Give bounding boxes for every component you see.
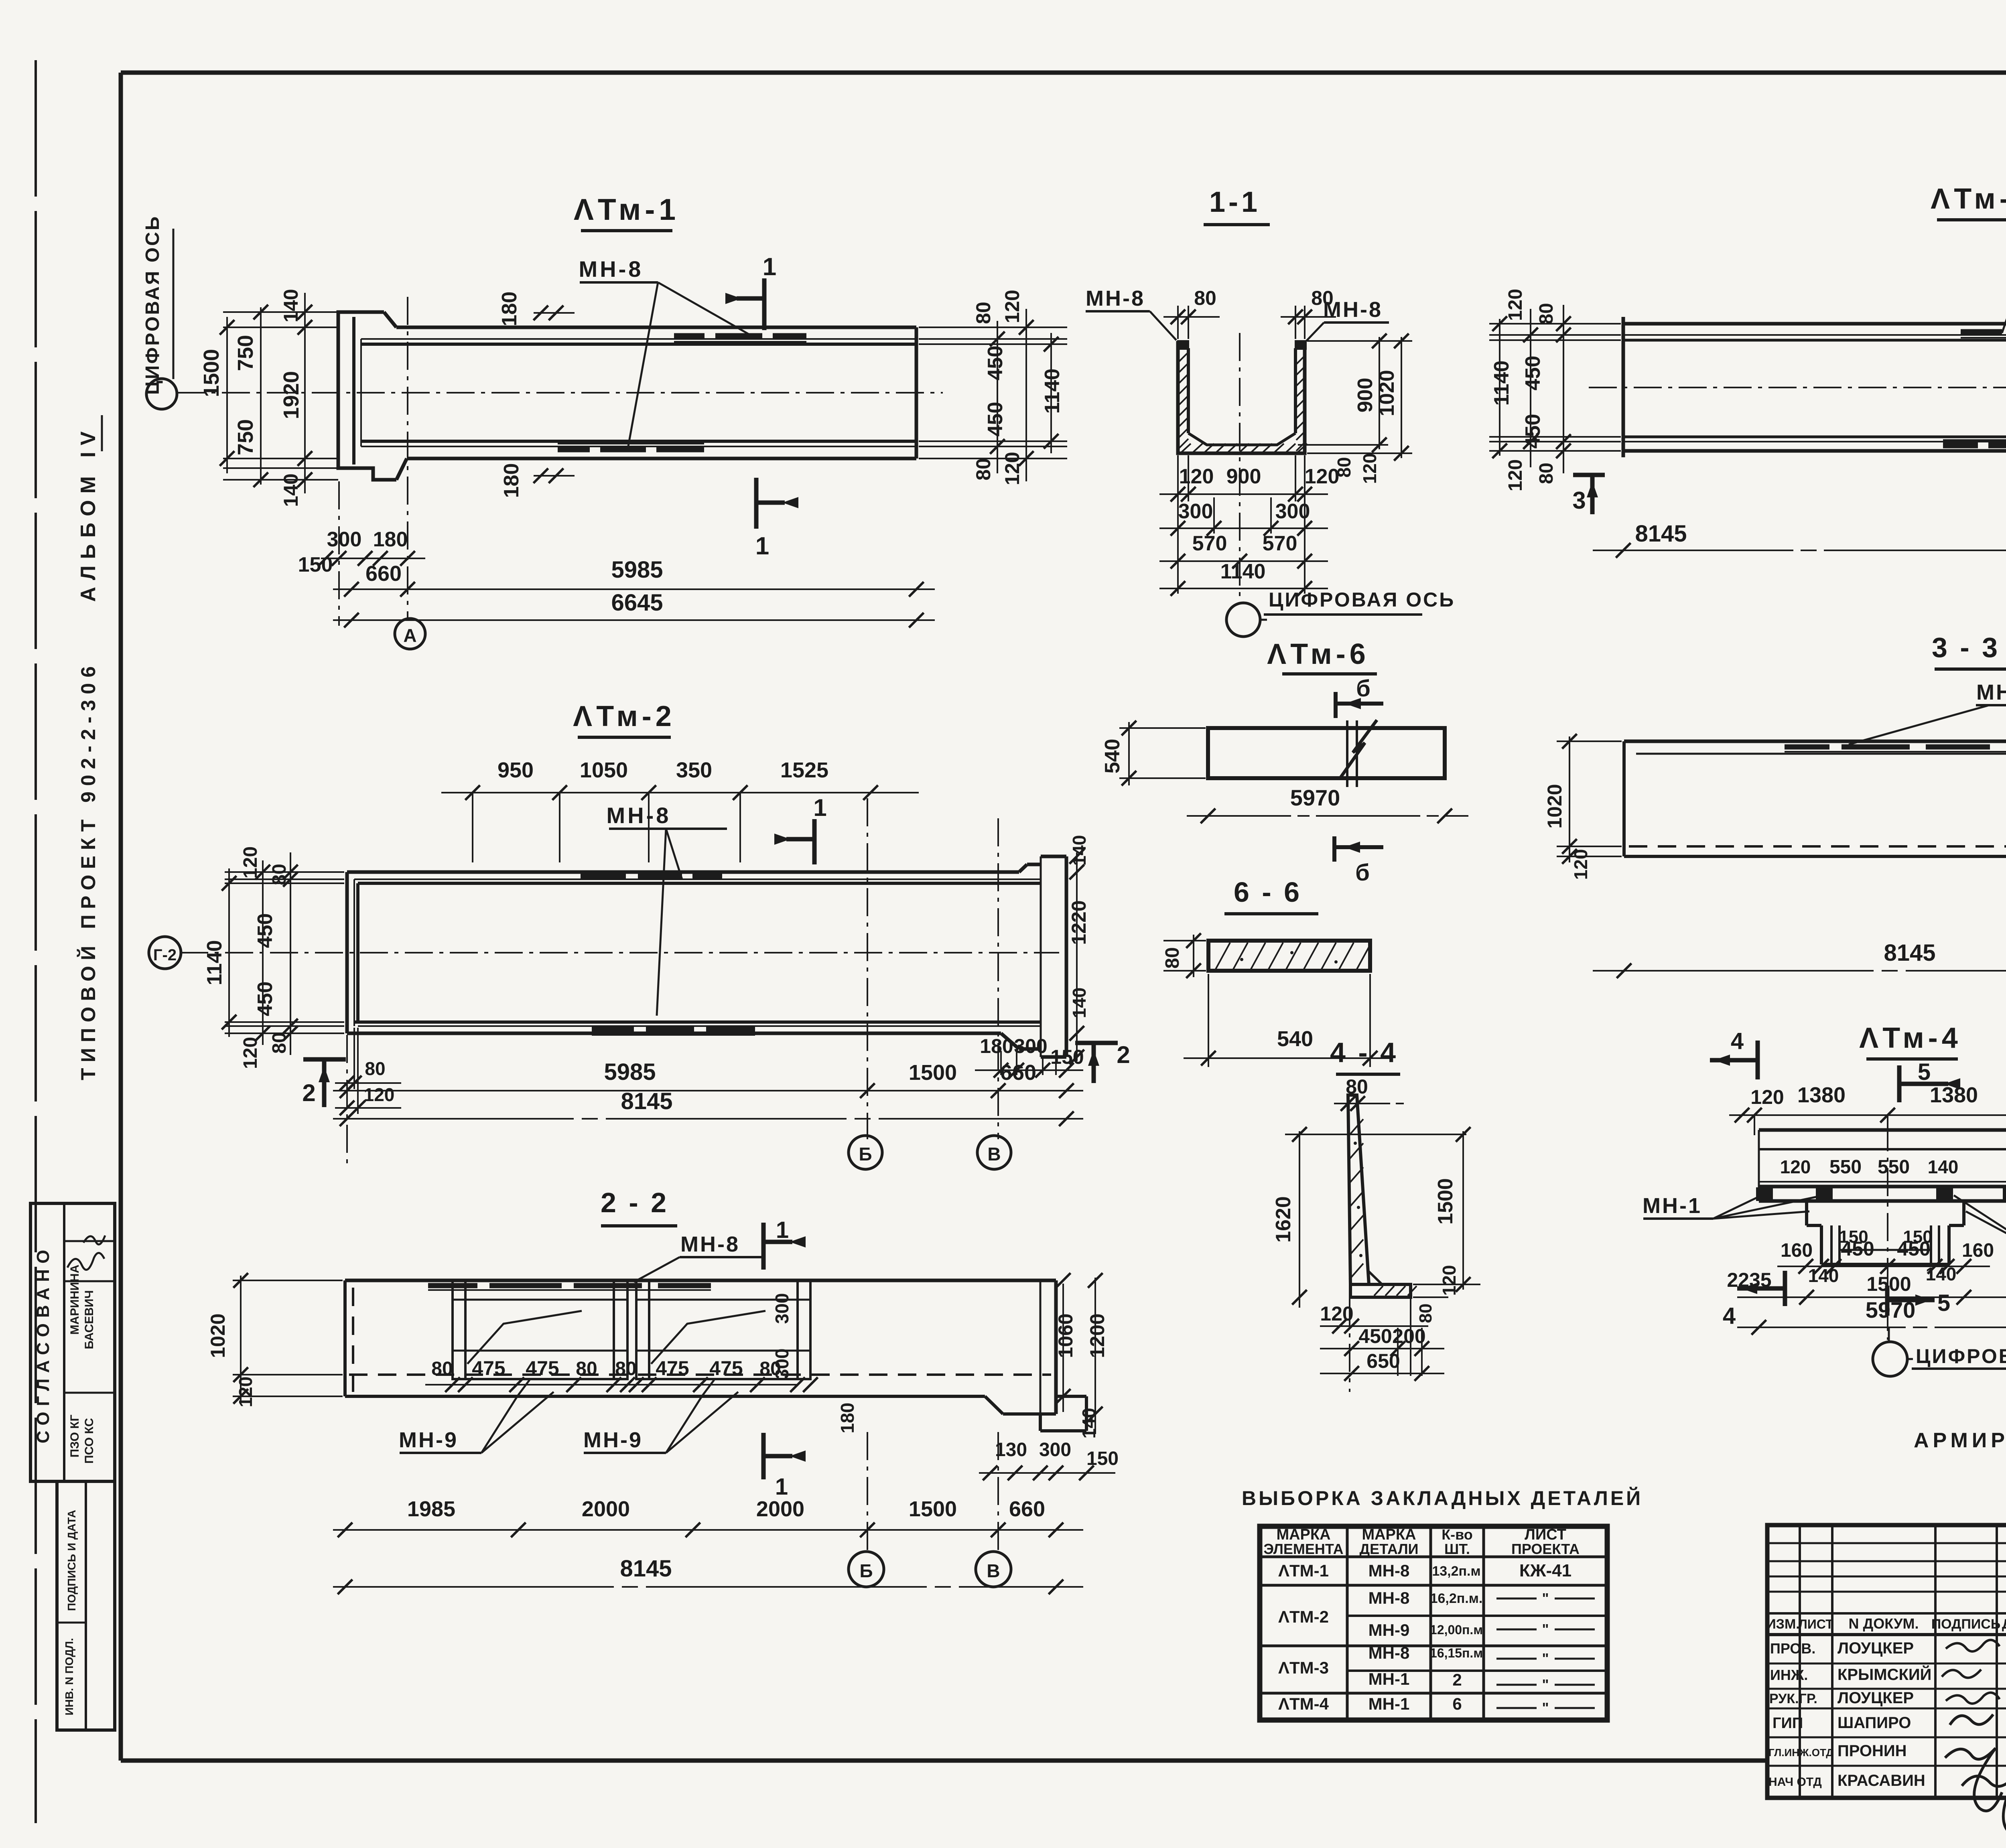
ATm-4 section mark 5 top xyxy=(1897,1065,1902,1102)
ATm-3 left dimension stack xyxy=(1489,323,1621,325)
section 1-1 chain 300 300 xyxy=(1159,527,1328,529)
svg-text:Б: Б xyxy=(859,1560,873,1581)
section 2-2 plate dashes top xyxy=(428,1283,477,1288)
svg-text:ПОДПИСЬ И ДАТА: ПОДПИСЬ И ДАТА xyxy=(65,1510,78,1611)
svg-text:ΛТм-3: ΛТм-3 xyxy=(1931,183,2006,215)
section 1-1 concrete hatch floor xyxy=(1181,444,1191,452)
svg-text:120: 120 xyxy=(1359,453,1380,484)
svg-text:450: 450 xyxy=(1521,356,1545,391)
embedded parts table grid xyxy=(1260,1526,1607,1720)
ATm-1 axis circle A xyxy=(395,619,425,649)
svg-text:В: В xyxy=(987,1144,1001,1164)
svg-text:Г-2: Г-2 xyxy=(153,946,177,964)
section 1-1 left wall outline xyxy=(1178,341,1305,453)
svg-text:ПЗО КГ: ПЗО КГ xyxy=(68,1415,81,1458)
svg-text:ΛТм-4: ΛТм-4 xyxy=(1859,1022,1962,1054)
svg-text:16,15п.м: 16,15п.м xyxy=(1430,1646,1483,1660)
svg-text:80: 80 xyxy=(365,1058,385,1079)
svg-text:450: 450 xyxy=(984,402,1007,437)
ATm-6 break mark xyxy=(1346,720,1348,787)
ATm-3 section mark 3 left xyxy=(1573,473,1605,477)
svg-text:80: 80 xyxy=(615,1358,636,1379)
ATm-2 centre line xyxy=(180,952,1059,953)
section 2-2 section mark 1 bottom xyxy=(761,1433,766,1479)
ATm-1 bottom dimension chain 150 300 180 xyxy=(321,558,425,559)
svg-text:475: 475 xyxy=(656,1357,689,1379)
svg-text:6: 6 xyxy=(1452,1694,1462,1713)
svg-text:80: 80 xyxy=(972,458,995,481)
svg-text:120: 120 xyxy=(1001,452,1023,485)
ATm-3 inner lines xyxy=(1623,334,2006,336)
svg-text:ИНВ. N ПОДЛ.: ИНВ. N ПОДЛ. xyxy=(63,1638,75,1715)
ATm-2 axes B V xyxy=(867,798,868,1139)
ATm-1 right dimension stack xyxy=(919,327,1067,328)
svg-text:570: 570 xyxy=(1192,532,1227,555)
section 2-2 stud group 2 (MN-9) xyxy=(636,1280,810,1379)
svg-text:МН-8: МН-8 xyxy=(1368,1643,1410,1662)
svg-text:8145: 8145 xyxy=(1884,940,1935,966)
svg-text:1020: 1020 xyxy=(1375,370,1399,416)
svg-text:120: 120 xyxy=(1505,289,1526,321)
table ditto marks in list column xyxy=(1496,1598,1537,1600)
svg-text:950: 950 xyxy=(497,758,534,782)
svg-text:900: 900 xyxy=(1354,378,1377,413)
svg-text:ΛТм-6: ΛТм-6 xyxy=(1267,638,1370,670)
svg-text:1985: 1985 xyxy=(407,1497,455,1521)
svg-text:ПРОНИН: ПРОНИН xyxy=(1837,1742,1907,1760)
svg-text:300: 300 xyxy=(1275,500,1310,523)
ATm-3 dim 8145 xyxy=(1593,550,2006,551)
svg-text:4: 4 xyxy=(1723,1303,1736,1329)
ATm-6 section mark b bottom xyxy=(1332,836,1336,862)
svg-text:80: 80 xyxy=(269,1032,290,1053)
svg-text:140: 140 xyxy=(1808,1265,1839,1286)
svg-text:16,2п.м.: 16,2п.м. xyxy=(1430,1591,1483,1606)
section 2-2 dim 8145 xyxy=(333,1586,1083,1588)
svg-text:450: 450 xyxy=(1358,1325,1392,1347)
ATm-2 section mark 2 left xyxy=(303,1057,346,1062)
ATm-1 outer profile xyxy=(338,312,396,480)
ATm-4 dim 5970 xyxy=(1737,1327,2006,1328)
svg-text:80: 80 xyxy=(1416,1304,1435,1323)
ATm-2 axis circle G-2 xyxy=(149,937,181,969)
svg-text:1: 1 xyxy=(775,1474,788,1500)
svg-text:900: 900 xyxy=(1226,465,1261,488)
svg-text:1: 1 xyxy=(813,794,826,821)
svg-text:8145: 8145 xyxy=(1635,521,1687,547)
ATm-2 top dimension chain 950 1050 350 1525 xyxy=(441,792,919,793)
svg-text:ИНЖ.: ИНЖ. xyxy=(1770,1667,1808,1683)
svg-text:120: 120 xyxy=(1179,465,1214,488)
svg-text:1: 1 xyxy=(763,253,776,281)
svg-text:ПСО КС: ПСО КС xyxy=(83,1418,96,1464)
svg-text:120: 120 xyxy=(240,1037,261,1069)
ATm-2 dim 5985 1500 660 xyxy=(333,1090,1083,1091)
svg-text:1500: 1500 xyxy=(199,349,223,397)
svg-text:ЦИФРОВАЯ ОСЬ: ЦИФРОВАЯ ОСЬ xyxy=(1916,1345,2006,1367)
svg-text:ΛТМ-3: ΛТМ-3 xyxy=(1278,1658,1329,1677)
svg-text:5985: 5985 xyxy=(611,557,663,583)
svg-text:1500: 1500 xyxy=(909,1497,957,1521)
svg-text:КРЫМСКИЙ: КРЫМСКИЙ xyxy=(1837,1665,1931,1684)
svg-text:МН-8: МН-8 xyxy=(1368,1588,1410,1607)
svg-text:ΛТм-1: ΛТм-1 xyxy=(574,193,680,226)
svg-text:ДАТА: ДАТА xyxy=(2002,1617,2006,1632)
svg-text:4 - 4: 4 - 4 xyxy=(1330,1037,1398,1068)
outer left trim line xyxy=(35,60,37,1823)
ATm-1 dimension line 6645 xyxy=(333,619,935,621)
section 1-1 chain 1140 xyxy=(1159,588,1328,589)
svg-text:КРАСАВИН: КРАСАВИН xyxy=(1837,1772,1925,1789)
svg-text:МН-8: МН-8 xyxy=(607,803,671,828)
svg-text:ЛОУЦКЕР: ЛОУЦКЕР xyxy=(1837,1639,1914,1657)
section 4-4 wall (hatched, tapered) xyxy=(1348,1095,1369,1284)
svg-text:1: 1 xyxy=(776,1217,789,1243)
svg-text:12,00п.м: 12,00п.м xyxy=(1430,1623,1483,1637)
svg-text:ВЫБОРКА ЗАКЛАДНЫХ ДЕТАЛЕЙ: ВЫБОРКА ЗАКЛАДНЫХ ДЕТАЛЕЙ xyxy=(1242,1487,1643,1509)
ATm-2 section mark 2 right xyxy=(1075,1041,1118,1045)
svg-text:150: 150 xyxy=(1086,1448,1119,1469)
section 1-1 embedded plates MN-8 (black) xyxy=(1177,340,1189,350)
ATm-4 section mark 4 bottom xyxy=(1783,1271,1787,1306)
svg-text:АЛЬБОМ IV: АЛЬБОМ IV xyxy=(77,425,100,602)
svg-text:450: 450 xyxy=(254,913,277,948)
svg-text:300: 300 xyxy=(1178,500,1213,523)
svg-text:120: 120 xyxy=(1750,1086,1784,1108)
svg-text:180: 180 xyxy=(980,1035,1013,1057)
svg-text:180: 180 xyxy=(373,528,408,551)
svg-text:475: 475 xyxy=(709,1357,743,1379)
svg-text:6645: 6645 xyxy=(611,590,663,616)
svg-text:8145: 8145 xyxy=(620,1556,672,1582)
svg-text:РУК.ГР.: РУК.ГР. xyxy=(1769,1691,1817,1706)
svg-text:140: 140 xyxy=(1928,1156,1959,1177)
svg-text:2 - 2: 2 - 2 xyxy=(601,1187,669,1218)
sidebar signature scribbles xyxy=(67,1253,104,1270)
svg-text:МН-1: МН-1 xyxy=(1368,1694,1410,1713)
ATm-4 chain 2235 1500 2235 xyxy=(1737,1296,2006,1298)
svg-text:6 - 6: 6 - 6 xyxy=(1234,876,1302,908)
title block signature scribbles xyxy=(1946,1640,2000,1651)
svg-text:80: 80 xyxy=(431,1358,453,1379)
svg-text:80: 80 xyxy=(1536,303,1557,324)
ATm-4 bottom chain 160 450 450 160 + 140 1500 140 xyxy=(1777,1266,1990,1267)
section 6-6 dim 80 left xyxy=(1163,940,1206,941)
svg-text:МН-9: МН-9 xyxy=(583,1428,643,1452)
svg-text:140: 140 xyxy=(280,473,302,507)
section 2-2 section mark 1 top xyxy=(761,1223,766,1270)
svg-text:160: 160 xyxy=(1962,1240,1994,1261)
svg-text:80: 80 xyxy=(972,302,995,324)
svg-text:120: 120 xyxy=(240,846,261,878)
svg-text:ТИПОВОЙ ПРОЕКТ 902-2-306: ТИПОВОЙ ПРОЕКТ 902-2-306 xyxy=(77,661,99,1080)
svg-text:140: 140 xyxy=(280,289,302,322)
section 3-3 bottom line and right end xyxy=(1624,855,2006,858)
svg-text:300: 300 xyxy=(1014,1035,1047,1057)
ATm-4 plates MN-1 under band (hatched) xyxy=(1756,1187,1773,1201)
section 4-4 dim 1500 right xyxy=(1462,1131,1464,1290)
svg-text:300: 300 xyxy=(1039,1439,1071,1461)
svg-text:180: 180 xyxy=(498,292,521,327)
section 1-1 top dims 80 80 xyxy=(1177,306,1179,339)
sidebar stamp box Podpis i data / Inv N podl xyxy=(57,1481,115,1730)
svg-text:450: 450 xyxy=(1521,414,1545,449)
section 1-1 centre axis line xyxy=(1239,333,1241,602)
svg-text:1620: 1620 xyxy=(1272,1196,1295,1243)
ATm-6 dim 5970 xyxy=(1187,815,1468,817)
section 1-1 concrete hatch left wall xyxy=(1179,352,1188,362)
svg-text:ИЗМ.: ИЗМ. xyxy=(1766,1617,1800,1632)
svg-text:ЛОУЦКЕР: ЛОУЦКЕР xyxy=(1837,1689,1914,1707)
ATm-1 vertical axis A line xyxy=(407,297,408,618)
svg-text:ЦИФРОВАЯ ОСЬ: ЦИФРОВАЯ ОСЬ xyxy=(1269,588,1455,611)
section 4-4 dim 1620 left xyxy=(1299,1131,1300,1308)
svg-text:НАЧ ОТД: НАЧ ОТД xyxy=(1768,1775,1822,1789)
svg-text:5985: 5985 xyxy=(604,1059,656,1085)
svg-text:13,2п.м: 13,2п.м xyxy=(1432,1564,1480,1579)
svg-text:150: 150 xyxy=(298,553,333,576)
ATm-1 plate offset dim 180 bottom xyxy=(534,475,575,477)
svg-text:120: 120 xyxy=(364,1084,395,1105)
svg-text:МН-8: МН-8 xyxy=(1086,286,1145,310)
svg-text:2: 2 xyxy=(1452,1670,1462,1689)
svg-text:ДЕТАЛИ: ДЕТАЛИ xyxy=(1360,1541,1419,1557)
svg-text:2: 2 xyxy=(302,1079,315,1106)
ATm-2 right cap xyxy=(1027,863,1041,866)
ATm-1 section mark 1 top xyxy=(762,278,767,330)
svg-text:ΛТМ-1: ΛТМ-1 xyxy=(1278,1561,1329,1580)
svg-text:ΛТм-2: ΛТм-2 xyxy=(573,700,676,732)
section 3-3 dim 8145 xyxy=(1593,970,2006,972)
svg-text:120: 120 xyxy=(1439,1265,1460,1296)
svg-text:130: 130 xyxy=(995,1439,1027,1461)
svg-text:1050: 1050 xyxy=(580,758,628,782)
svg-text:3: 3 xyxy=(1572,487,1586,514)
svg-text:5970: 5970 xyxy=(1290,785,1340,810)
svg-text:МН-8: МН-8 xyxy=(680,1232,740,1256)
section 2-2 stud group 1 (MN-9) xyxy=(453,1280,627,1379)
svg-text:300: 300 xyxy=(772,1349,792,1379)
ATm-1 cap inner line xyxy=(352,317,355,465)
svg-text:1: 1 xyxy=(755,532,769,560)
svg-text:МН-9: МН-9 xyxy=(399,1428,458,1452)
svg-text:МН-1: МН-1 xyxy=(1368,1669,1410,1688)
svg-text:N ДОКУМ.: N ДОКУМ. xyxy=(1849,1615,1919,1632)
svg-text:": " xyxy=(1542,1676,1549,1693)
svg-text:660: 660 xyxy=(1009,1497,1045,1521)
section 6-6 slab (hatched) xyxy=(1208,941,1370,971)
svg-text:1140: 1140 xyxy=(1490,361,1513,406)
ATm-3 outer profile xyxy=(1623,322,2006,326)
svg-text:80: 80 xyxy=(1194,287,1216,309)
ATm-4 slab band xyxy=(1759,1128,2006,1132)
svg-text:МАРИНИНА: МАРИНИНА xyxy=(68,1265,81,1335)
ATm-1 horizontal centre line xyxy=(177,392,943,394)
ATm-1 dimension line 660 5985 xyxy=(333,588,935,590)
svg-text:300: 300 xyxy=(327,528,362,551)
svg-text:120: 120 xyxy=(1305,465,1340,488)
svg-text:120: 120 xyxy=(235,1377,256,1408)
svg-text:МН-8: МН-8 xyxy=(579,256,644,282)
section 3-3 left dims 1020 120 xyxy=(1557,740,1622,742)
svg-text:140: 140 xyxy=(1926,1264,1957,1284)
section 2-2 top edge xyxy=(345,1279,1056,1282)
svg-text:540: 540 xyxy=(1101,739,1124,774)
ATm-1 embedded plate MN-8 bottom xyxy=(558,446,590,452)
svg-text:1500: 1500 xyxy=(909,1061,957,1085)
svg-text:1060: 1060 xyxy=(1054,1313,1077,1358)
svg-text:б: б xyxy=(1355,860,1370,886)
section 2-2 axes B V circles xyxy=(867,1432,868,1556)
svg-text:475: 475 xyxy=(472,1357,505,1379)
svg-text:8145: 8145 xyxy=(621,1088,672,1114)
svg-text:660: 660 xyxy=(1000,1061,1036,1085)
ATm-1 trough inner wall lines bottom xyxy=(361,440,916,443)
section 1-1 bottom chain 120 900 120 xyxy=(1177,455,1179,594)
svg-text:1380: 1380 xyxy=(1797,1083,1846,1107)
svg-text:1500: 1500 xyxy=(1866,1273,1911,1295)
svg-text:120: 120 xyxy=(1780,1156,1811,1177)
svg-text:1380: 1380 xyxy=(1930,1083,1978,1107)
svg-text:550: 550 xyxy=(1878,1156,1910,1178)
svg-text:БАСЕВИЧ: БАСЕВИЧ xyxy=(83,1290,96,1349)
ATm-6 dim 540 left xyxy=(1119,727,1206,729)
svg-text:ΛТМ-2: ΛТМ-2 xyxy=(1278,1607,1329,1626)
svg-text:ПРОЕКТА: ПРОЕКТА xyxy=(1511,1541,1580,1557)
svg-text:750: 750 xyxy=(233,419,258,455)
section 1-1 chain 570 570 xyxy=(1159,560,1328,562)
svg-text:ΛТМ-4: ΛТМ-4 xyxy=(1278,1694,1329,1713)
svg-text:В: В xyxy=(987,1560,1000,1581)
svg-text:350: 350 xyxy=(676,758,712,782)
svg-text:570: 570 xyxy=(1263,532,1297,555)
ATm-4 section mark 5 bottom xyxy=(1887,1292,1888,1295)
section 2-2 left dims 1020 120 xyxy=(233,1280,343,1281)
svg-text:475: 475 xyxy=(526,1357,559,1379)
ATm-1 left axis circle xyxy=(146,379,177,409)
svg-text:1140: 1140 xyxy=(203,940,226,986)
ATm-1 section mark 1 bottom xyxy=(754,478,759,529)
svg-text:2000: 2000 xyxy=(756,1497,804,1521)
svg-text:КЖ-41: КЖ-41 xyxy=(1519,1561,1572,1580)
svg-text:2235: 2235 xyxy=(1727,1269,1771,1291)
section 3-3 top slab band xyxy=(1624,740,2006,743)
ATm-3 embedded plate MN-8 top xyxy=(1961,329,2002,335)
svg-text:450: 450 xyxy=(1841,1237,1874,1260)
svg-text:ГЛ.ИНЖ.ОТД: ГЛ.ИНЖ.ОТД xyxy=(1768,1747,1833,1759)
drawing frame border xyxy=(121,71,2006,75)
svg-text:": " xyxy=(1542,1700,1549,1716)
section 3-3 hidden dashed line xyxy=(1629,845,2006,848)
svg-text:ШАПИРО: ШАПИРО xyxy=(1837,1714,1911,1732)
svg-text:2000: 2000 xyxy=(582,1497,630,1521)
section 3-3 plate dashes on slab xyxy=(1785,744,1829,750)
svg-text:ПОДПИСЬ: ПОДПИСЬ xyxy=(1931,1617,2001,1632)
svg-text:120: 120 xyxy=(1001,290,1023,323)
section 2-2 bottom edge with right step xyxy=(345,1395,985,1398)
ATm-1 left dimension stack xyxy=(223,311,338,313)
svg-text:ЦИФРОВАЯ ОСЬ: ЦИФРОВАЯ ОСЬ xyxy=(142,215,163,395)
svg-text:": " xyxy=(1542,1650,1549,1667)
svg-text:1200: 1200 xyxy=(1086,1313,1109,1358)
section 4-4 top reference line xyxy=(1285,1134,1466,1135)
svg-text:СОГЛАСОВАНО: СОГЛАСОВАНО xyxy=(33,1244,53,1444)
section 2-2 bottom chain 1985 2000 2000 1500 660 xyxy=(333,1529,1083,1531)
section 1-1 axis circle with label xyxy=(1226,603,1260,637)
svg-text:450: 450 xyxy=(984,346,1007,381)
svg-text:180: 180 xyxy=(500,463,523,498)
ATm-4 centre axis line xyxy=(1887,1123,1888,1340)
svg-text:1500: 1500 xyxy=(1434,1178,1457,1225)
svg-text:А: А xyxy=(403,625,416,646)
ATm-2 dim 8145 xyxy=(333,1118,1083,1120)
svg-text:ГИП: ГИП xyxy=(1773,1715,1803,1732)
svg-text:1020: 1020 xyxy=(1543,784,1566,828)
svg-text:1525: 1525 xyxy=(780,758,828,782)
svg-text:1140: 1140 xyxy=(1220,560,1266,583)
svg-text:120: 120 xyxy=(1505,459,1526,491)
ATm-3 centre line xyxy=(1589,387,2006,388)
svg-text:5970: 5970 xyxy=(1866,1297,1916,1323)
svg-text:650: 650 xyxy=(1366,1350,1400,1372)
svg-text:80: 80 xyxy=(269,864,290,885)
svg-text:1140: 1140 xyxy=(1041,369,1064,414)
svg-text:МН-1: МН-1 xyxy=(1643,1194,1702,1218)
svg-text:1020: 1020 xyxy=(207,1313,229,1358)
svg-text:450: 450 xyxy=(254,982,277,1016)
title block left column grid xyxy=(1799,1525,1801,1798)
ATm-2 inner trough outline xyxy=(354,878,1041,880)
svg-text:120: 120 xyxy=(1320,1302,1353,1325)
svg-text:540: 540 xyxy=(1277,1027,1313,1051)
svg-text:550: 550 xyxy=(1829,1156,1862,1178)
ATm-2 outer profile xyxy=(347,870,1019,874)
svg-text:МН-8: МН-8 xyxy=(1323,298,1383,322)
svg-text:5: 5 xyxy=(1937,1290,1950,1316)
section 2-2 hidden dashed line xyxy=(349,1373,1051,1376)
ATm-1 plate offset dim 180 top xyxy=(534,312,575,314)
ATm-4 axis circle with label Cifrovaya os xyxy=(1888,1327,1890,1341)
svg-text:80: 80 xyxy=(1536,463,1557,484)
svg-text:80: 80 xyxy=(1162,947,1183,968)
sidebar stamp box Soglasovano xyxy=(30,1203,115,1481)
svg-text:ШТ.: ШТ. xyxy=(1444,1541,1470,1557)
ATm-2 embedded plate MN-8 top xyxy=(581,874,626,880)
svg-text:1220: 1220 xyxy=(1068,900,1090,945)
svg-text:МН-8: МН-8 xyxy=(1368,1561,1410,1580)
svg-text:1920: 1920 xyxy=(279,371,303,419)
svg-text:Б: Б xyxy=(859,1144,872,1164)
svg-text:АРМИРОВАНИЕ СМ. КЖ-31.: АРМИРОВАНИЕ СМ. КЖ-31. xyxy=(1914,1429,2006,1452)
ATm-3 embedded plate MN-8 bottom xyxy=(1943,442,1978,448)
svg-text:б: б xyxy=(1356,676,1370,702)
svg-text:ЭЛЕМЕНТА: ЭЛЕМЕНТА xyxy=(1263,1541,1343,1557)
svg-text:750: 750 xyxy=(233,335,258,371)
svg-text:660: 660 xyxy=(365,562,402,586)
svg-text:МН-8: МН-8 xyxy=(1976,680,2006,704)
svg-text:120: 120 xyxy=(1570,849,1591,880)
svg-text:180: 180 xyxy=(837,1403,858,1434)
svg-text:1-1: 1-1 xyxy=(1209,186,1261,218)
svg-text:К-во: К-во xyxy=(1442,1526,1473,1543)
svg-text:": " xyxy=(1542,1590,1549,1607)
ATm-4 section mark 4 top xyxy=(1756,1041,1760,1079)
section 1-1 right dimension stack 900 1020 xyxy=(1307,340,1412,342)
svg-text:160: 160 xyxy=(1781,1240,1813,1261)
svg-text:ПРОВ.: ПРОВ. xyxy=(1770,1640,1815,1657)
ATm-2 embedded plate MN-8 bottom xyxy=(592,1026,634,1033)
svg-text:МН-9: МН-9 xyxy=(1368,1621,1410,1639)
